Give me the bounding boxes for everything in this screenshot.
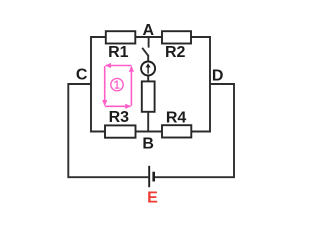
galvanometer G (circle with up arrow) [141,62,155,76]
resistor R4 box [162,125,191,137]
loop indicator 1: pink counterclockwise arrows [105,66,132,107]
wire: node A drop to switch [148,37,150,48]
svg-text:R4: R4 [166,109,187,126]
svg-text:R3: R3 [109,109,130,126]
svg-text:E: E [147,190,158,207]
wire: middle resistor bottom to node B [147,112,149,132]
battery E: long positive plate [148,166,150,187]
wire: left inner branch C-shape (top-left corner, left vertical, bottom-left corner) [91,37,106,132]
svg-text:C: C [76,67,88,84]
resistor (middle branch) box [142,81,155,111]
resistor R3 box [105,125,136,137]
wire: galvanometer bottom to middle resistor [147,76,149,82]
svg-text:A: A [143,22,155,39]
battery E: short negative plate [152,172,155,182]
wire: top middle segment R1 to R2 through node A [135,36,162,38]
wire: right inner branch (top-right corner, right vertical, bottom-right corner) [191,37,210,132]
switch S blade (open) [142,48,148,56]
resistor R1 box [106,31,136,43]
svg-text:D: D [212,68,224,85]
wire: switch to galvanometer top [147,55,149,62]
svg-text:R2: R2 [165,44,186,61]
resistor R2 box [162,31,191,43]
svg-text:B: B [142,136,154,153]
wire: bottom middle segment R3 to R4 through node B [136,131,163,133]
loop indicator 1: circled 1 label [111,78,123,90]
wire: node C stub and outer-left down to battery [68,84,148,177]
wire: battery right to outer-right up to node D stub [154,84,234,177]
svg-text:R1: R1 [108,44,129,61]
